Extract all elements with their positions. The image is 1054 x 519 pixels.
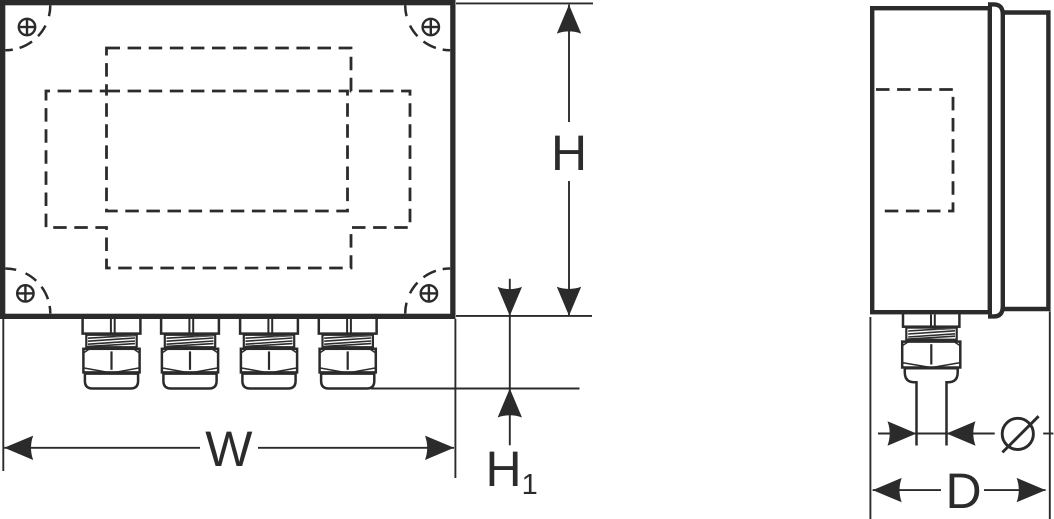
cable gland 2 xyxy=(161,316,219,389)
corner screw bottom-right xyxy=(421,285,437,301)
svg-text:D: D xyxy=(946,463,982,519)
svg-text:H: H xyxy=(551,125,587,181)
label H xyxy=(550,122,588,180)
dimension H1 arrow down xyxy=(498,287,522,316)
corner arc top-left xyxy=(5,5,50,50)
cable gland 4 xyxy=(319,316,377,389)
side view lid flange xyxy=(988,4,1003,316)
side view hidden rectangle dashed xyxy=(876,90,953,212)
extension line D left xyxy=(869,317,871,519)
corner screw bottom-left xyxy=(17,285,33,301)
svg-text:W: W xyxy=(205,421,253,477)
dimension H1 arrow up xyxy=(498,389,522,418)
label diameter symbol xyxy=(1002,416,1038,452)
enclosure front view outline xyxy=(3,3,453,317)
cable gland 1 xyxy=(83,316,141,389)
corner arc bottom-left xyxy=(5,269,50,314)
dimension H1 line xyxy=(509,279,511,445)
extension line box bottom (H / H1) xyxy=(456,315,592,317)
side view cable gland xyxy=(902,312,960,446)
dimension D arrow left xyxy=(873,478,902,502)
side view back panel xyxy=(1003,13,1049,310)
extension line D right xyxy=(1049,312,1051,519)
extension line W right xyxy=(454,319,456,478)
dimension diameter arrow right-pointing xyxy=(888,421,917,445)
dimension H arrow up xyxy=(557,5,581,34)
extension line W left xyxy=(2,319,4,471)
dimension H arrow down xyxy=(557,287,581,316)
dimension W arrow right xyxy=(425,436,454,460)
corner arc bottom-right xyxy=(405,269,450,314)
corner arc top-right xyxy=(405,5,450,50)
dimension W arrow left xyxy=(4,436,33,460)
dimension W line xyxy=(4,447,200,449)
hidden cross outline (lid recess) dashed xyxy=(46,48,410,268)
dimension D arrow right xyxy=(1017,478,1046,502)
dimension diameter line xyxy=(878,433,995,435)
corner screw top-right xyxy=(423,19,439,35)
dimension diameter arrow left-pointing xyxy=(947,421,976,445)
hidden inner rectangle dashed xyxy=(107,91,348,211)
enclosure side view body xyxy=(872,8,990,312)
extension line top (H) xyxy=(456,2,593,4)
dimension H line xyxy=(568,5,570,123)
corner screw top-left xyxy=(19,19,35,35)
cable gland 3 xyxy=(240,316,298,389)
dimension D line xyxy=(873,489,941,491)
extension line gland bottom (H1) xyxy=(371,388,580,390)
